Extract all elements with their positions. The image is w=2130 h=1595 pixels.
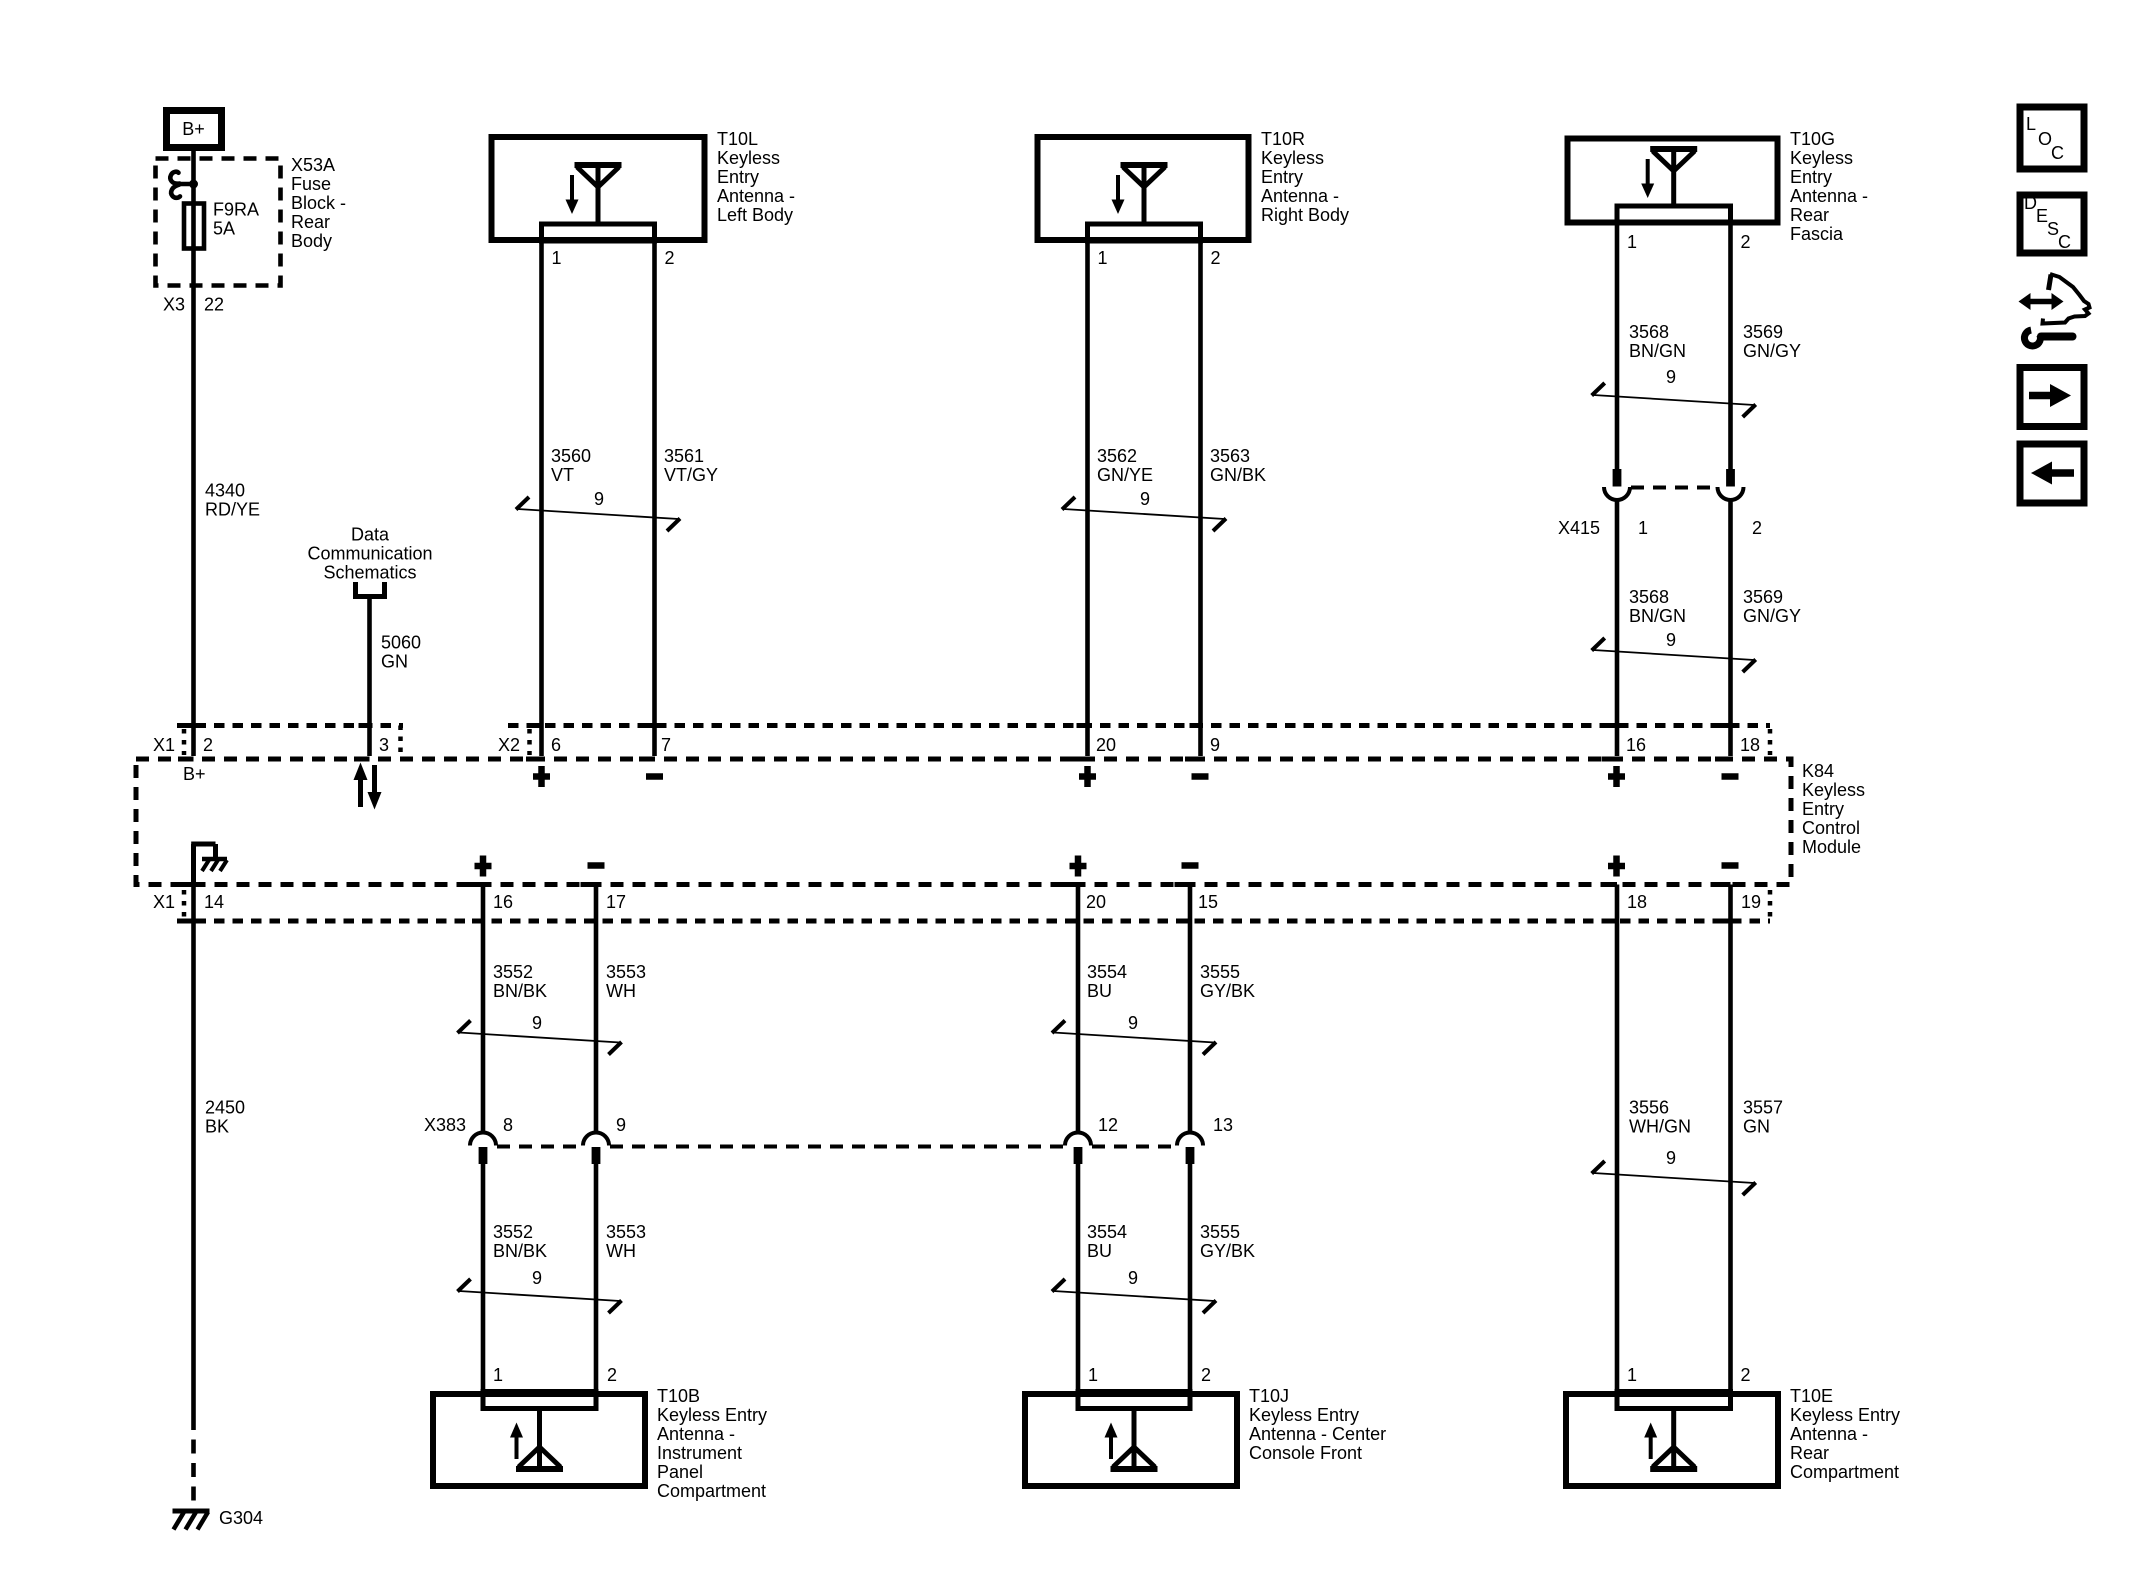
svg-text:Fuse: Fuse <box>291 174 331 194</box>
svg-text:G304: G304 <box>219 1508 263 1528</box>
svg-text:4340: 4340 <box>205 481 245 501</box>
twisted pair symbol with 9 turns lower (3568/3569) <box>1592 630 1756 672</box>
svg-text:Keyless: Keyless <box>1802 780 1865 800</box>
X383 dashed connector line <box>497 1145 1176 1149</box>
label F9RA 5A <box>213 200 259 239</box>
wire label 2450 BK <box>205 1098 245 1137</box>
twisted pair 9 turns (3556/3557) <box>1592 1148 1756 1195</box>
T10B antenna symbol <box>510 1408 563 1472</box>
svg-text:19: 19 <box>1741 892 1761 912</box>
X415 dashed connector line <box>1631 486 1716 490</box>
svg-text:BU: BU <box>1087 1241 1112 1261</box>
svg-text:1: 1 <box>493 1365 503 1385</box>
minus polarity at pin 9 <box>1192 776 1209 778</box>
T10R connector cavity <box>1088 224 1201 241</box>
T10E antenna symbol <box>1644 1408 1697 1472</box>
svg-text:BU: BU <box>1087 981 1112 1001</box>
LOC navigation icon <box>2020 107 2084 169</box>
svg-text:Control: Control <box>1802 818 1860 838</box>
svg-text:GN/GY: GN/GY <box>1743 341 1801 361</box>
antenna T10J Keyless Entry Antenna - Center Console Front box <box>1025 1394 1237 1486</box>
upper pin ticks at dotted line <box>183 723 1731 728</box>
T10J antenna symbol <box>1105 1408 1158 1472</box>
svg-text:Data: Data <box>351 525 390 545</box>
label 3561 VT/GY <box>664 446 718 485</box>
wire B+ feed 4340 RD/YE to module pin X1-2 <box>191 151 196 756</box>
label 3556 WH/GN <box>1629 1098 1691 1137</box>
svg-text:Block -: Block - <box>291 193 346 213</box>
svg-text:Antenna -: Antenna - <box>657 1424 735 1444</box>
twisted pair 9 turns (3554/3555 upper) <box>1052 1013 1216 1055</box>
svg-text:9: 9 <box>532 1268 542 1288</box>
lower pin feet at module border <box>178 882 1731 887</box>
wire 3553 WH upper segment (K84 X1-17 to X383-9) <box>594 885 599 1134</box>
svg-text:Rear: Rear <box>1790 1443 1829 1463</box>
wire 3563 GN/BK (T10R-2 to K84 X2-9) <box>1198 241 1203 756</box>
svg-text:13: 13 <box>1213 1115 1233 1135</box>
svg-text:Keyless: Keyless <box>717 148 780 168</box>
svg-text:Keyless Entry: Keyless Entry <box>657 1405 767 1425</box>
inline connector X383 terminal 12 <box>1065 1133 1091 1165</box>
T10L antenna symbol <box>566 162 622 224</box>
svg-text:T10L: T10L <box>717 129 758 149</box>
wire 3555 GY/BK lower segment (X383-13 to T10J-2) <box>1188 1162 1193 1408</box>
svg-text:Panel: Panel <box>657 1462 703 1482</box>
svg-text:6: 6 <box>551 735 561 755</box>
twisted pair symbol with 9 turns (3562/3563) <box>1062 489 1226 531</box>
connector label X3 pin 22 <box>163 295 224 315</box>
svg-text:3552: 3552 <box>493 1222 533 1242</box>
svg-text:Keyless: Keyless <box>1790 148 1853 168</box>
T10L connector cavity <box>542 224 655 241</box>
svg-text:2450: 2450 <box>205 1098 245 1118</box>
svg-text:9: 9 <box>1666 630 1676 650</box>
wire 3561 VT/GY (T10L-2 to K84 X2-7) <box>652 241 657 756</box>
battery node B+ <box>167 111 222 148</box>
svg-text:3563: 3563 <box>1210 446 1250 466</box>
svg-text:7: 7 <box>661 735 671 755</box>
fuse F9RA 5A <box>184 204 204 249</box>
svg-text:2: 2 <box>607 1365 617 1385</box>
svg-text:Keyless: Keyless <box>1261 148 1324 168</box>
svg-text:L: L <box>2026 114 2036 134</box>
wire 3568 BN/GN lower segment (X415-1 to K84 X2-16) <box>1615 500 1620 757</box>
svg-text:RD/YE: RD/YE <box>205 500 260 520</box>
svg-text:9: 9 <box>1210 735 1220 755</box>
svg-text:Compartment: Compartment <box>1790 1462 1899 1482</box>
wire 3562 GN/YE (T10R-1 to K84 X2-20) <box>1085 241 1090 756</box>
T10E label <box>1790 1386 1900 1482</box>
svg-text:X415: X415 <box>1558 518 1600 538</box>
label 3555 GY/BK lower <box>1200 1222 1255 1261</box>
svg-text:3552: 3552 <box>493 962 533 982</box>
svg-text:GY/BK: GY/BK <box>1200 1241 1255 1261</box>
module K84 Keyless Entry Control Module dashed outline <box>136 759 1791 885</box>
svg-text:GN: GN <box>381 652 408 672</box>
antenna T10E Keyless Entry Antenna - Rear Compartment box <box>1566 1394 1778 1486</box>
svg-text:X53A: X53A <box>291 155 335 175</box>
Data Communication Schematics off-page reference <box>307 525 432 597</box>
svg-text:20: 20 <box>1096 735 1116 755</box>
label 3553 WH lower <box>606 1222 646 1261</box>
svg-text:3568: 3568 <box>1629 587 1669 607</box>
svg-text:BN/BK: BN/BK <box>493 1241 547 1261</box>
fuse block X53A dashed enclosure <box>156 159 281 286</box>
svg-text:9: 9 <box>532 1013 542 1033</box>
svg-text:X1: X1 <box>153 735 175 755</box>
svg-text:Left Body: Left Body <box>717 205 793 225</box>
svg-text:9: 9 <box>1128 1268 1138 1288</box>
svg-text:C: C <box>2051 143 2064 163</box>
diagnostic car and wrench icon <box>2019 274 2090 346</box>
svg-text:VT: VT <box>551 465 574 485</box>
T10L label <box>717 129 795 225</box>
svg-text:1: 1 <box>1627 232 1637 252</box>
X53A Fuse Block - Rear Body label <box>291 155 346 251</box>
svg-text:2: 2 <box>1741 232 1751 252</box>
wire 3560 VT (T10L-1 to K84 X2-6) <box>539 241 544 756</box>
T10R label <box>1261 129 1349 225</box>
svg-text:2: 2 <box>1201 1365 1211 1385</box>
svg-text:2: 2 <box>1752 518 1762 538</box>
svg-text:3569: 3569 <box>1743 322 1783 342</box>
svg-text:T10J: T10J <box>1249 1386 1289 1406</box>
lower row minus at pin 17 <box>588 865 605 867</box>
wire 3555 GY/BK upper segment (K84 X1-15 to X383-13) <box>1188 885 1193 1134</box>
wire 3569 GN/GY upper segment (T10G-2 to X415-2) <box>1728 223 1733 470</box>
svg-text:3561: 3561 <box>664 446 704 466</box>
T10G connector cavity <box>1617 206 1731 223</box>
wire 3568 BN/GN upper segment (T10G-1 to X415-1) <box>1615 223 1620 470</box>
svg-text:Communication: Communication <box>307 544 432 564</box>
wire 3554 BU upper segment (K84 X1-20 to X383-12) <box>1076 885 1081 1134</box>
antenna T10G Keyless Entry Antenna - Rear Fascia box <box>1568 139 1778 223</box>
ground G304 symbol <box>173 1511 210 1530</box>
svg-text:Fascia: Fascia <box>1790 224 1844 244</box>
twisted pair 9 turns (3552/3553 lower) <box>458 1268 622 1313</box>
svg-text:1: 1 <box>552 248 562 268</box>
svg-text:Antenna - Center: Antenna - Center <box>1249 1424 1386 1444</box>
svg-text:16: 16 <box>1626 735 1646 755</box>
svg-text:9: 9 <box>594 489 604 509</box>
antenna T10L Keyless Entry Antenna - Left Body box <box>492 137 705 240</box>
lower row plus at pin 20 <box>1070 856 1087 877</box>
svg-text:BN/BK: BN/BK <box>493 981 547 1001</box>
svg-text:9: 9 <box>1128 1013 1138 1033</box>
svg-text:WH: WH <box>606 1241 636 1261</box>
back navigation arrow icon <box>2020 444 2084 503</box>
svg-text:X1: X1 <box>153 892 175 912</box>
svg-text:3555: 3555 <box>1200 1222 1240 1242</box>
svg-text:9: 9 <box>616 1115 626 1135</box>
svg-text:9: 9 <box>1666 1148 1676 1168</box>
svg-text:9: 9 <box>1666 367 1676 387</box>
T10R antenna symbol <box>1112 162 1168 224</box>
svg-text:Module: Module <box>1802 837 1861 857</box>
plus polarity at pin 6 <box>533 766 550 787</box>
svg-text:3: 3 <box>379 735 389 755</box>
wire 3556 WH/GN (K84 X1-18 to T10E-1) <box>1615 885 1620 1409</box>
wire 3553 WH lower segment (X383-9 to T10B-2) <box>594 1162 599 1408</box>
svg-text:Keyless Entry: Keyless Entry <box>1249 1405 1359 1425</box>
svg-text:T10G: T10G <box>1790 129 1835 149</box>
svg-text:Antenna -: Antenna - <box>1261 186 1339 206</box>
svg-text:X2: X2 <box>498 735 520 755</box>
svg-text:F9RA: F9RA <box>213 200 259 220</box>
T10E connector cavity <box>1617 1392 1731 1409</box>
svg-text:GN/GY: GN/GY <box>1743 606 1801 626</box>
svg-text:3553: 3553 <box>606 962 646 982</box>
svg-text:15: 15 <box>1198 892 1218 912</box>
label 3568 BN/GN lower <box>1629 587 1686 626</box>
svg-text:2: 2 <box>665 248 675 268</box>
svg-text:3553: 3553 <box>606 1222 646 1242</box>
svg-text:2: 2 <box>203 735 213 755</box>
svg-text:1: 1 <box>1098 248 1108 268</box>
svg-text:WH: WH <box>606 981 636 1001</box>
svg-text:T10E: T10E <box>1790 1386 1833 1406</box>
svg-text:5A: 5A <box>213 219 235 239</box>
minus polarity at pin 18 <box>1722 776 1739 778</box>
label 3553 WH upper <box>606 962 646 1001</box>
K84 upper connector X1 dotted cell (pins 2,3) <box>177 726 403 756</box>
svg-text:Schematics: Schematics <box>323 563 416 583</box>
svg-text:1: 1 <box>1088 1365 1098 1385</box>
label 3560 VT <box>551 446 591 485</box>
svg-text:GN/YE: GN/YE <box>1097 465 1153 485</box>
serial data up/down arrows at pin 3 <box>354 763 382 810</box>
svg-text:1: 1 <box>1627 1365 1637 1385</box>
T10B connector cavity <box>483 1392 596 1409</box>
wire 3554 BU lower segment (X383-12 to T10J-1) <box>1076 1162 1081 1408</box>
svg-text:Entry: Entry <box>1802 799 1844 819</box>
forward navigation arrow icon <box>2020 368 2084 427</box>
lower row plus at pin 16 <box>475 856 492 877</box>
svg-text:3569: 3569 <box>1743 587 1783 607</box>
svg-text:3557: 3557 <box>1743 1098 1783 1118</box>
svg-text:22: 22 <box>204 295 224 315</box>
svg-text:18: 18 <box>1627 892 1647 912</box>
antenna T10B Keyless Entry Antenna - Instrument Panel Compartment box <box>433 1394 645 1486</box>
label 3552 BN/BK upper <box>493 962 547 1001</box>
svg-text:WH/GN: WH/GN <box>1629 1117 1691 1137</box>
inline connector X415 terminal 1 <box>1604 469 1630 500</box>
plus polarity at pin 20 <box>1079 766 1096 787</box>
svg-text:K84: K84 <box>1802 761 1834 781</box>
T10G antenna symbol <box>1641 146 1697 208</box>
svg-text:BN/GN: BN/GN <box>1629 606 1686 626</box>
svg-text:17: 17 <box>606 892 626 912</box>
svg-text:3562: 3562 <box>1097 446 1137 466</box>
T10B label <box>657 1386 767 1501</box>
svg-text:5060: 5060 <box>381 633 421 653</box>
lower row minus at pin 19 <box>1722 865 1739 867</box>
wire 3557 GN (K84 X1-19 to T10E-2) <box>1728 885 1733 1409</box>
svg-text:Compartment: Compartment <box>657 1481 766 1501</box>
svg-text:9: 9 <box>1140 489 1150 509</box>
svg-text:Antenna -: Antenna - <box>1790 1424 1868 1444</box>
svg-text:GN: GN <box>1743 1117 1770 1137</box>
upper pin feet at module border <box>178 757 1731 762</box>
wire label 5060 GN <box>381 633 421 672</box>
svg-text:Keyless Entry: Keyless Entry <box>1790 1405 1900 1425</box>
inline connector X415 terminal 2 <box>1718 469 1744 500</box>
T10J connector cavity <box>1078 1392 1190 1409</box>
svg-text:Rear: Rear <box>291 212 330 232</box>
svg-text:2: 2 <box>1741 1365 1751 1385</box>
K84 upper connector X2 dotted cell (pins 6-18) <box>508 726 1770 756</box>
label 3555 GY/BK upper <box>1200 962 1255 1001</box>
DESC navigation icon <box>2020 193 2084 253</box>
svg-text:Rear: Rear <box>1790 205 1829 225</box>
label 3562 GN/YE <box>1097 446 1153 485</box>
svg-text:GY/BK: GY/BK <box>1200 981 1255 1001</box>
wire 5060 GN serial data <box>367 596 372 756</box>
inline connector X383 terminal 9 <box>583 1133 609 1165</box>
svg-text:Antenna -: Antenna - <box>717 186 795 206</box>
svg-text:B+: B+ <box>183 764 206 784</box>
wire 3569 GN/GY lower segment (X415-2 to K84 X2-18) <box>1728 500 1733 757</box>
svg-text:Right Body: Right Body <box>1261 205 1349 225</box>
svg-text:3560: 3560 <box>551 446 591 466</box>
svg-text:GN/BK: GN/BK <box>1210 465 1266 485</box>
label 3563 GN/BK <box>1210 446 1266 485</box>
svg-text:X383: X383 <box>424 1115 466 1135</box>
T10J label <box>1249 1386 1386 1463</box>
svg-text:VT/GY: VT/GY <box>664 465 718 485</box>
svg-text:3568: 3568 <box>1629 322 1669 342</box>
twisted pair symbol with 9 turns (3560/3561) <box>516 489 680 531</box>
svg-text:BK: BK <box>205 1117 229 1137</box>
svg-text:C: C <box>2058 232 2071 252</box>
svg-text:3556: 3556 <box>1629 1098 1669 1118</box>
svg-text:8: 8 <box>503 1115 513 1135</box>
K84 label <box>1802 761 1865 857</box>
svg-text:3554: 3554 <box>1087 1222 1127 1242</box>
wire 3552 BN/BK lower segment (X383-8 to T10B-1) <box>481 1162 486 1408</box>
svg-text:T10B: T10B <box>657 1386 700 1406</box>
svg-text:3554: 3554 <box>1087 962 1127 982</box>
svg-text:12: 12 <box>1098 1115 1118 1135</box>
label 3568 BN/GN upper <box>1629 322 1686 361</box>
lower pin ticks at dotted line <box>183 919 1731 924</box>
lower row minus at pin 15 <box>1182 865 1199 867</box>
minus polarity at pin 7 <box>646 776 663 778</box>
inline connector X383 terminal 8 <box>470 1133 496 1165</box>
label 3552 BN/BK lower <box>493 1222 547 1261</box>
label 3569 GN/GY lower <box>1743 587 1801 626</box>
svg-text:Entry: Entry <box>717 167 759 187</box>
svg-text:2: 2 <box>1211 248 1221 268</box>
T10G label <box>1790 129 1868 244</box>
label 3554 BU upper <box>1087 962 1127 1001</box>
twisted pair 9 turns (3554/3555 lower) <box>1052 1268 1216 1313</box>
wire label 4340 RD/YE <box>205 481 260 520</box>
wire 3552 BN/BK upper segment (K84 X1-16 to X383-8) <box>481 885 486 1134</box>
svg-text:Body: Body <box>291 231 332 251</box>
svg-text:Entry: Entry <box>1790 167 1832 187</box>
svg-text:T10R: T10R <box>1261 129 1305 149</box>
svg-text:14: 14 <box>204 892 224 912</box>
antenna T10R Keyless Entry Antenna - Right Body box <box>1038 137 1249 240</box>
plus polarity at pin 16 <box>1608 766 1625 787</box>
twisted pair 9 turns (3552/3553 upper) <box>458 1013 622 1055</box>
svg-text:X3: X3 <box>163 295 185 315</box>
internal ground symbol at pin 14 <box>191 844 227 884</box>
label 3557 GN <box>1743 1098 1783 1137</box>
svg-text:O: O <box>2038 129 2052 149</box>
svg-text:Entry: Entry <box>1261 167 1303 187</box>
wire 2450 BK ground feed (K84 X1-14 to G304) <box>191 885 196 1508</box>
label 3569 GN/GY upper <box>1743 322 1801 361</box>
svg-text:1: 1 <box>1638 518 1648 538</box>
label 3554 BU lower <box>1087 1222 1127 1261</box>
svg-text:Console Front: Console Front <box>1249 1443 1362 1463</box>
fuse clip hook symbol <box>170 172 198 198</box>
svg-text:18: 18 <box>1740 735 1760 755</box>
svg-text:20: 20 <box>1086 892 1106 912</box>
svg-text:B+: B+ <box>182 119 205 139</box>
K84 lower connector X1 dotted line <box>177 890 1770 921</box>
inline connector X383 terminal 13 <box>1177 1133 1203 1165</box>
svg-text:Instrument: Instrument <box>657 1443 742 1463</box>
svg-text:3555: 3555 <box>1200 962 1240 982</box>
svg-text:Antenna -: Antenna - <box>1790 186 1868 206</box>
svg-text:16: 16 <box>493 892 513 912</box>
lower row plus at pin 18 <box>1608 856 1625 877</box>
svg-text:BN/GN: BN/GN <box>1629 341 1686 361</box>
twisted pair symbol with 9 turns upper (3568/3569) <box>1592 367 1756 417</box>
